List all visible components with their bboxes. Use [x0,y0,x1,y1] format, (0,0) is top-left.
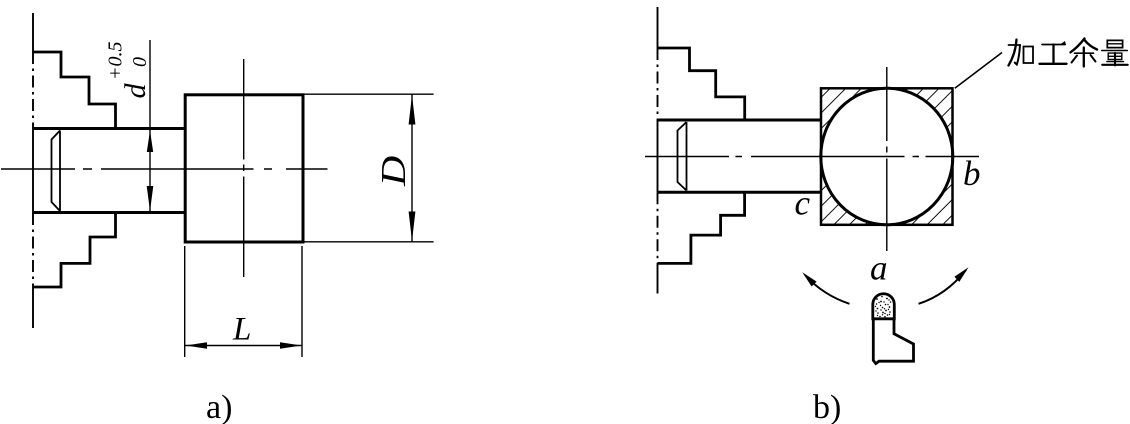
chuck face line fig b (hidden behind top jaw) [657,48,659,120]
shaft end chamfer fig b [678,122,687,191]
vertical centerline fig b [886,67,888,251]
arrowhead d down [147,186,154,211]
svg-text:d: d [119,83,152,99]
chuck face line fig a (solid top) [32,13,34,52]
disc workpiece fig a [185,95,303,242]
L extension line right [301,246,303,357]
svg-text:L: L [232,312,251,348]
arrowhead swing right [954,267,968,282]
chuck face line fig b (solid top) [657,7,659,48]
leader line to label [955,53,1002,89]
char jia [1009,40,1017,66]
bottom jaw steps fig a [33,211,116,287]
arrowhead D down [409,212,416,242]
arrowhead D up [409,95,416,125]
tool stipple dots [874,294,891,318]
centerline horizontal fig b [645,156,979,158]
char liang [1107,40,1122,47]
centerline horizontal fig a [1,168,328,170]
top jaw steps fig a [33,52,116,130]
shaft top line fig a [33,127,185,130]
tool shank body [873,319,913,364]
svg-text:b: b [963,154,981,193]
svg-text:c: c [795,184,811,223]
arrowhead d up [147,131,153,153]
bottom jaw steps fig b [658,191,745,263]
arrowhead swing left [802,272,816,286]
dimension line L [185,345,302,347]
square outline [821,88,953,225]
shaft top line fig b [658,119,821,122]
dimension line d fig a [149,40,151,211]
sphere blank circle [821,88,953,225]
shaft bottom line fig b [658,191,821,194]
chuck face line fig a (hidden behind top jaw) [32,52,34,128]
machining allowance hatched square [821,88,953,225]
chuck face line fig a (solid bottom) [32,287,34,328]
svg-text:a): a) [206,389,232,424]
svg-text:0: 0 [129,57,151,67]
chuck face line fig a (hidden behind bottom jaw) [32,213,34,287]
top jaw steps fig b [658,48,745,122]
label jiagongyuliang (machining allowance) [1009,39,1128,67]
L extension line left [184,246,186,357]
char yu [1071,39,1085,53]
tool dome (insert) [873,294,895,319]
svg-text:b): b) [813,389,841,424]
chuck face line fig b (middle solid) [657,120,659,192]
D extension line top [303,93,434,95]
swing arc right [919,270,967,304]
D extension line bottom [303,241,434,243]
chuck face line fig b (solid bottom) [657,263,659,293]
svg-text:D: D [375,156,413,188]
disc vertical centerline fig a [243,59,245,277]
arrowhead L left [186,342,208,348]
shaft end chamfer fig a [52,131,61,212]
arrowhead L right [280,342,302,348]
chuck face line fig a (middle solid) [32,128,34,213]
svg-text:+0.5: +0.5 [105,42,127,81]
chuck face line fig b (hidden behind bottom jaw) [657,192,659,263]
swing arc left [805,275,850,304]
shaft bottom line fig a [33,211,185,214]
char gong [1042,44,1065,46]
svg-text:a: a [870,249,888,288]
dimension line D [411,94,413,242]
